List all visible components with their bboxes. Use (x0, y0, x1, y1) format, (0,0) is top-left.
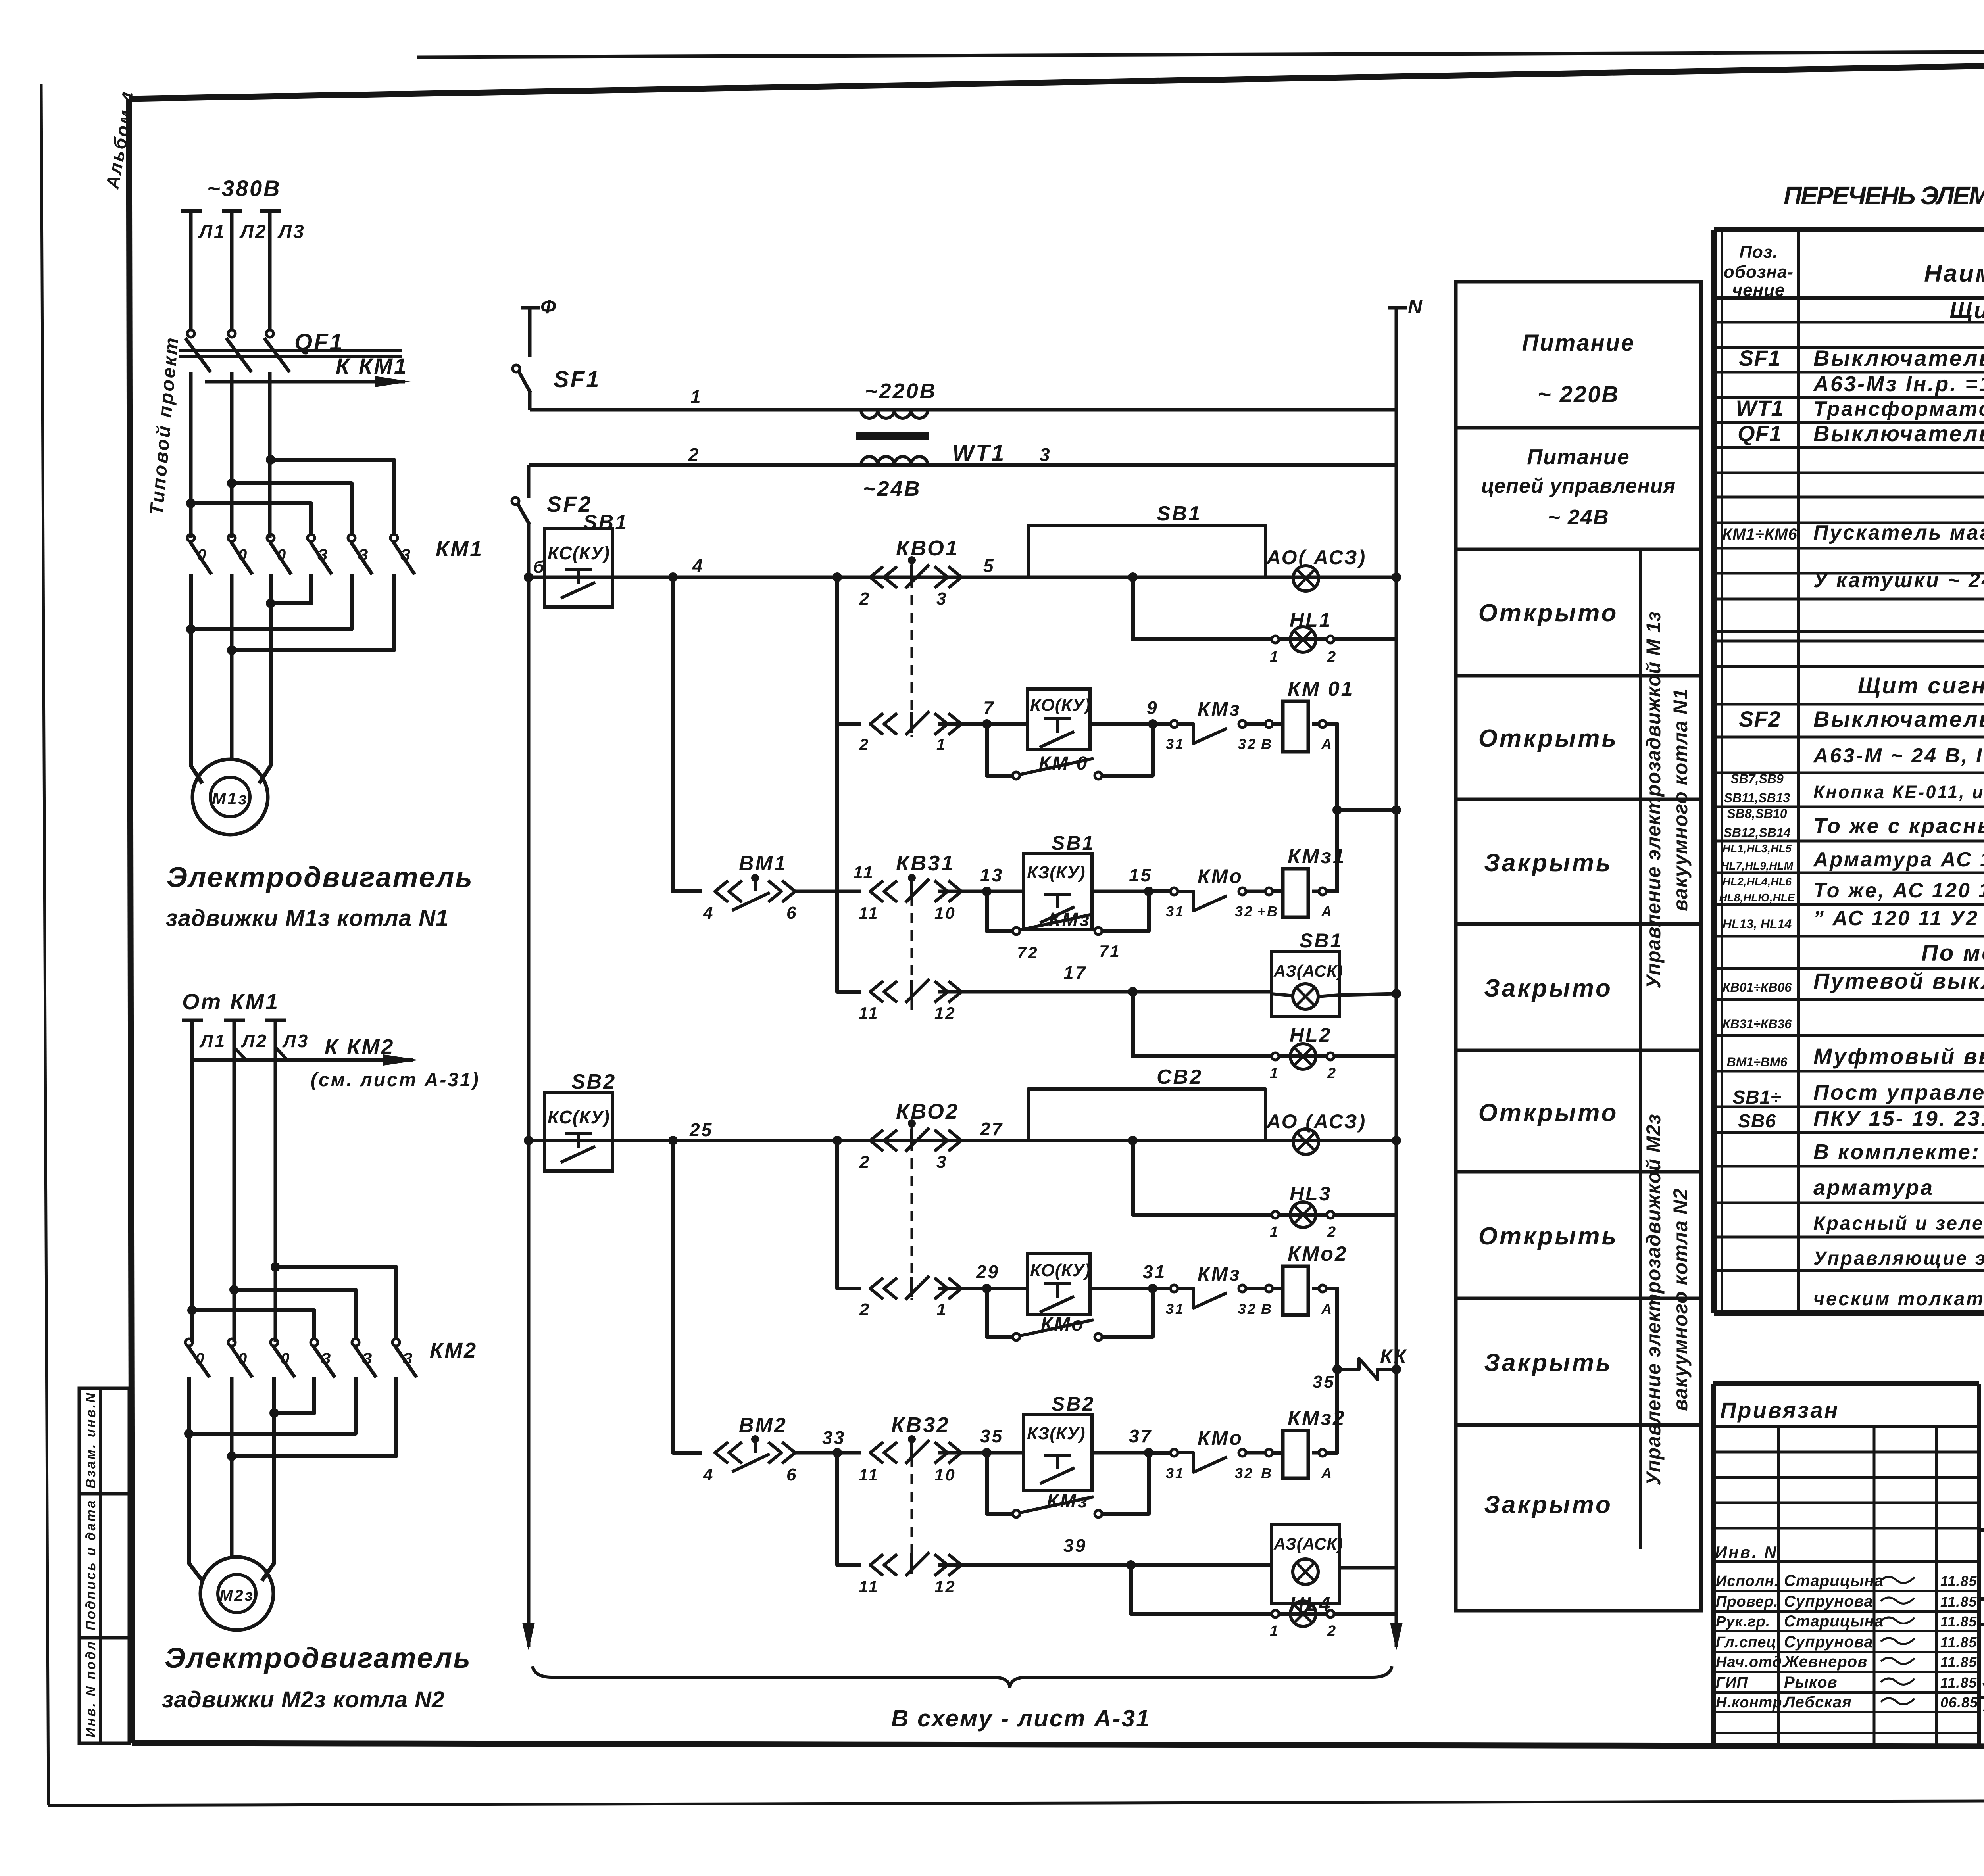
svg-text:0: 0 (277, 546, 287, 564)
svg-text:SB1: SB1 (583, 511, 628, 534)
motor M1з (192, 759, 268, 835)
sheet outer border bottom edge (48, 1800, 1984, 1805)
svg-text:КК: КК (1380, 1345, 1407, 1367)
svg-text:Супрунова: Супрунова (1784, 1593, 1873, 1610)
svg-text:29: 29 (976, 1262, 1000, 1282)
svg-text:2: 2 (688, 444, 700, 465)
title block line below ТП (1979, 1597, 1984, 1601)
svg-text:0: 0 (238, 1350, 248, 1367)
svg-text:35: 35 (980, 1426, 1004, 1446)
crossover wire Л3 to KM1 pole 6 (271, 460, 394, 534)
svg-text:2: 2 (859, 589, 871, 609)
svg-text:11: 11 (859, 1004, 879, 1022)
motor M2з (200, 1557, 273, 1630)
drawing frame bottom edge (132, 1743, 1984, 1747)
svg-text:КВО1: КВО1 (896, 536, 959, 560)
svg-text:З: З (402, 1350, 414, 1367)
title block line above Цех (1979, 1623, 1984, 1626)
svg-text:А: А (1321, 736, 1333, 752)
terminal N (1388, 306, 1407, 310)
svg-text:Кнопка КЕ-011, исп. 4 с чер: Кнопка КЕ-011, исп. 4 с черным толкател. (1813, 782, 1984, 802)
svg-text:КМо: КМо (1198, 865, 1243, 887)
svg-text:Выключатель автоматический: Выключатель автоматический (1813, 707, 1984, 732)
wire KM1 pole 6 to pole 2 line (232, 574, 394, 650)
svg-text:ВМ1÷ВМ6: ВМ1÷ВМ6 (1727, 1055, 1788, 1069)
svg-text:33: 33 (822, 1427, 846, 1448)
svg-text:1: 1 (936, 736, 947, 753)
svg-text:Взам. инв.N: Взам. инв.N (83, 1391, 98, 1488)
svg-text:З: З (317, 546, 329, 564)
svg-text:А: А (1321, 1465, 1333, 1481)
wire QF1 to KM1 phase Л1 (189, 372, 193, 538)
svg-text:А: А (1321, 1301, 1333, 1317)
svg-text:Н.контр.: Н.контр. (1716, 1694, 1787, 1711)
svg-text:3: 3 (1040, 444, 1052, 465)
svg-text:А63-Мз Iн.р. =1,6А: А63-Мз Iн.р. =1,6А (1813, 372, 1984, 396)
svg-text:SB1: SB1 (1300, 929, 1343, 952)
svg-text:3: 3 (936, 589, 948, 609)
svg-text:71: 71 (1099, 942, 1121, 960)
svg-text:~220В: ~220В (865, 379, 937, 403)
svg-text:То же с красным толкателе: То же с красным толкателем (1813, 814, 1984, 838)
pushbutton КО(КУ) group2 (1027, 1254, 1090, 1314)
svg-text:SF1: SF1 (1739, 346, 1781, 371)
svg-text:Выключатель АЕ: Выключатель АЕ (1813, 421, 1984, 446)
crossover wire Л1 to KM1 pole 4 (191, 503, 311, 534)
title block line above ТП (1979, 1528, 1984, 1532)
svg-text:В: В (1261, 1465, 1273, 1481)
tap wire К КМ2 with arrow (192, 1058, 413, 1062)
svg-text:6: 6 (786, 1465, 798, 1484)
svg-text:SF2: SF2 (1739, 707, 1781, 732)
svg-text:3: 3 (936, 1152, 948, 1172)
svg-text:КМо: КМо (1041, 1314, 1085, 1335)
svg-text:27: 27 (980, 1119, 1004, 1139)
svg-text:Инв. N подл: Инв. N подл (83, 1640, 98, 1738)
svg-text:Закрыть: Закрыть (1484, 849, 1613, 877)
svg-text:З: З (321, 1350, 333, 1367)
svg-text:НL13, НL14: НL13, НL14 (1723, 917, 1792, 931)
svg-text:11.85: 11.85 (1940, 1674, 1977, 1691)
svg-text:N: N (1408, 296, 1424, 318)
svg-text:Жевнеров: Жевнеров (1783, 1653, 1867, 1671)
node rail2 right bus (1392, 1136, 1401, 1145)
svg-text:Супрунова: Супрунова (1784, 1633, 1873, 1651)
svg-text:Щит 1Ш: Щит 1Ш (1949, 298, 1984, 323)
svg-text:КВО2: КВО2 (896, 1100, 959, 1123)
svg-text:31: 31 (1166, 1301, 1185, 1317)
rail row open-indicate group2 (529, 1139, 1396, 1142)
svg-text:0: 0 (197, 546, 208, 564)
svg-text:Электродвигатель: Электродвигатель (165, 1642, 471, 1674)
title block line above Управление (1979, 1696, 1984, 1699)
phase lead Л1 circuit 1 (181, 209, 202, 213)
svg-text:Исполн.: Исполн. (1716, 1573, 1779, 1590)
svg-text:КВ31: КВ31 (896, 851, 955, 875)
svg-text:КВ01÷КВ06: КВ01÷КВ06 (1723, 980, 1792, 995)
svg-text:SB1: SB1 (1157, 502, 1202, 525)
sheet outer border top edge (417, 50, 1984, 57)
svg-text:Управление электрозодвижками: Управление электрозодвижками (1982, 1698, 1984, 1715)
svg-text:В схему - лист А-31: В схему - лист А-31 (891, 1705, 1150, 1732)
lamp HL1 branch (1133, 577, 1396, 639)
svg-text:32: 32 (1235, 1465, 1254, 1481)
svg-text:Открыто: Открыто (1478, 1099, 1619, 1127)
svg-text:Закрыть: Закрыть (1484, 1349, 1613, 1377)
svg-text:Электродвигатель: Электродвигатель (167, 862, 473, 893)
button SB1 bypass link (1028, 526, 1265, 577)
svg-text:4: 4 (703, 903, 714, 923)
auxiliary contact КМо bypass group2 (987, 1288, 1013, 1337)
svg-text:2: 2 (1327, 1224, 1337, 1240)
svg-text:11.85: 11.85 (1940, 1613, 1977, 1630)
lamp HL3 branch (1133, 1141, 1396, 1215)
svg-text:ВМ1: ВМ1 (739, 852, 787, 875)
svg-text:11: 11 (853, 863, 875, 882)
svg-text:25: 25 (689, 1119, 713, 1140)
svg-text:Щит сигнализации ЩС1: Щит сигнализации ЩС1 (1858, 673, 1984, 699)
svg-text:72: 72 (1017, 943, 1039, 962)
svg-text:” АС 120 11 У2: ” АС 120 11 У2 (1813, 907, 1979, 930)
wire coil КМ01 to bus (1326, 724, 1396, 810)
node to row Открыть group1 (832, 572, 842, 582)
svg-text:11: 11 (859, 1465, 879, 1484)
svg-text:Нач.отд.: Нач.отд. (1716, 1654, 1786, 1671)
margin stamp boxes (79, 1388, 129, 1743)
svg-text:3000 бройлеров (кур) в час.: 3000 бройлеров (кур) в час. (1982, 1669, 1984, 1692)
svg-text:К КМ2: К КМ2 (325, 1035, 394, 1059)
wire coil КМз1 up to bus join (1326, 810, 1337, 891)
svg-text:цепей управления: цепей управления (1481, 474, 1676, 497)
svg-text:5: 5 (983, 555, 995, 576)
left bus bottom arrow (522, 1623, 535, 1650)
svg-text:12: 12 (934, 1577, 956, 1596)
button station box SB2 КС(КУ) (544, 1093, 613, 1171)
svg-text:31: 31 (1166, 1465, 1185, 1481)
svg-text:1: 1 (1270, 649, 1280, 665)
svg-text:31: 31 (1143, 1262, 1166, 1282)
phase lead Л1 circuit 2 (182, 1019, 203, 1022)
svg-text:Старицына: Старицына (1784, 1613, 1884, 1630)
svg-text:0: 0 (238, 546, 248, 564)
switch SF1 (513, 365, 520, 372)
svg-text:Открыть: Открыть (1478, 725, 1619, 752)
svg-text:06.85: 06.85 (1940, 1694, 1978, 1711)
svg-text:КМз: КМз (1198, 1263, 1241, 1285)
wire coil КМз2 to КК junction (1326, 1369, 1337, 1453)
function column inner divider (1639, 549, 1642, 1549)
svg-text:15: 15 (1129, 865, 1152, 885)
terminal Ф (521, 306, 540, 310)
svg-text:WT1: WT1 (1736, 396, 1784, 421)
lamp HL4 branch (1131, 1565, 1396, 1614)
svg-text:SF1: SF1 (554, 367, 600, 392)
svg-text:4: 4 (692, 555, 704, 576)
svg-text:вакуумного котла N2: вакуумного котла N2 (1669, 1188, 1692, 1411)
svg-text:32: 32 (1238, 1301, 1257, 1317)
phase lead Л2 circuit 1 (222, 209, 242, 213)
motor lead 1 circuit 2 (189, 1377, 202, 1581)
svg-text:SB11,SB13: SB11,SB13 (1724, 791, 1790, 805)
svg-text:1: 1 (1270, 1623, 1280, 1640)
svg-text:QF1: QF1 (1738, 421, 1782, 446)
svg-text:КС(КУ): КС(КУ) (548, 543, 610, 563)
node to lamp HL3 row (1128, 1136, 1138, 1145)
svg-text:HL3: HL3 (1290, 1183, 1332, 1205)
svg-text:КС(КУ): КС(КУ) (548, 1107, 610, 1127)
wire KM1 pole 5 to pole 1 line (191, 574, 352, 629)
svg-text:Лебская: Лебская (1783, 1694, 1852, 1711)
svg-text:Привязан: Привязан (1720, 1398, 1839, 1423)
auxiliary contact КМз bypass group1 (987, 891, 1013, 931)
svg-text:Л2: Л2 (239, 221, 267, 242)
svg-text:З: З (362, 1350, 374, 1367)
row Закрыто group2 wire (837, 1453, 861, 1565)
drawing frame left edge (129, 99, 132, 1743)
svg-text:0: 0 (281, 1350, 291, 1367)
svg-text:М1з: М1з (212, 789, 248, 808)
svg-text:Старицына: Старицына (1784, 1572, 1884, 1590)
svg-text:31: 31 (1166, 736, 1185, 752)
svg-text:НL2,НL4,НL6: НL2,НL4,НL6 (1723, 876, 1792, 888)
contactor KM1 contacts (187, 534, 194, 541)
motor lead 3 circuit 2 (262, 1377, 274, 1581)
svg-text:WT1: WT1 (952, 440, 1005, 466)
svg-text:SB2: SB2 (1052, 1393, 1095, 1415)
motor lead 2 circuit 2 (230, 1377, 234, 1557)
svg-text:Рыков: Рыков (1784, 1674, 1838, 1691)
svg-text:Управление электрозадвижкой: Управление электрозадвижкой М 1з (1642, 611, 1665, 989)
svg-text:КМ 01: КМ 01 (1288, 678, 1354, 701)
svg-text:13: 13 (980, 865, 1004, 885)
crossover wire Л2 to KM1 pole 5 (232, 483, 352, 534)
svg-text:ВМ2: ВМ2 (739, 1414, 787, 1437)
svg-text:КМ1: КМ1 (436, 537, 483, 561)
svg-text:КО(КУ): КО(КУ) (1030, 1261, 1091, 1280)
svg-text:чение: чение (1732, 280, 1785, 300)
svg-text:Провер.: Провер. (1716, 1594, 1778, 1610)
svg-text:32: 32 (1238, 736, 1257, 752)
element table grid (1714, 227, 1984, 232)
svg-text:Л3: Л3 (282, 1031, 309, 1051)
node to row Закрыть group1 (668, 572, 678, 582)
svg-text:Гл.спец.: Гл.спец. (1716, 1634, 1781, 1651)
svg-text:А63-М ~ 24 В, I расч.: А63-М ~ 24 В, I расч. = 1,6 А (1813, 744, 1984, 767)
svg-text:12: 12 (934, 1004, 956, 1022)
wire KM1 pole 4 to pole 3 line (271, 574, 311, 603)
row Закрыть group1 wire (673, 577, 702, 891)
svg-text:КМз: КМз (1047, 1491, 1089, 1512)
row Закрыто group1 wire (837, 724, 861, 992)
svg-text:В: В (1261, 1301, 1273, 1317)
svg-text:Арматура АС 120 13У2, ~ 24В: Арматура АС 120 13У2, ~ 24В (1813, 848, 1984, 871)
svg-text:задвижки М1з котла N1: задвижки М1з котла N1 (166, 905, 449, 931)
svg-text:СВ2: СВ2 (1157, 1066, 1203, 1089)
svg-text:Л3: Л3 (277, 221, 306, 242)
svg-text:SB12,SB14: SB12,SB14 (1724, 826, 1791, 840)
svg-text:Рук.гр.: Рук.гр. (1716, 1613, 1770, 1630)
pushbutton КО(КУ) group1 (1027, 689, 1090, 750)
svg-text:КМо2: КМо2 (1288, 1242, 1348, 1265)
svg-text:КМз: КМз (1198, 698, 1241, 720)
svg-text:Л2: Л2 (241, 1031, 268, 1051)
circuit breaker QF1 (187, 330, 194, 337)
svg-text:АО (АСЗ): АО (АСЗ) (1266, 1110, 1367, 1133)
rail row open-indicate group1 (529, 576, 1396, 579)
title block small grid (1713, 1425, 1979, 1428)
svg-text:Открыто: Открыто (1478, 599, 1619, 627)
lamp HL2 branch (1133, 992, 1396, 1056)
phase lead Л3 circuit 2 (265, 1019, 286, 1022)
svg-text:Управляющие элементы с цилин: Управляющие элементы с цилиндри- (1813, 1248, 1984, 1269)
svg-text:НL8,НLЮ,НLЕ: НL8,НLЮ,НLЕ (1719, 891, 1796, 904)
svg-text:КМ 0: КМ 0 (1039, 753, 1089, 774)
brace В схему лист А-31 (533, 1666, 1392, 1688)
svg-text:ПЕРЕЧЕНЬ ЭЛЕМЕНТОВ ПРИНЦИПИА: ПЕРЕЧЕНЬ ЭЛЕМЕНТОВ ПРИНЦИПИАЛЬНОЙ СХЕМЫ (1784, 180, 1984, 210)
svg-text:КЗ(КУ): КЗ(КУ) (1027, 863, 1085, 882)
coil КМ02 (1265, 1285, 1273, 1292)
wire QF1 to KM1 phase Л3 (268, 372, 272, 538)
node to row Открыть group2 (832, 1136, 842, 1145)
svg-text:2: 2 (859, 1152, 871, 1172)
svg-text:НL7,НL9,НLМ: НL7,НL9,НLМ (1721, 860, 1794, 872)
svg-text:К КМ1: К КМ1 (336, 353, 408, 378)
svg-text:11.85: 11.85 (1940, 1573, 1977, 1589)
sheet outer border left edge (41, 84, 48, 1805)
wire 1 220V line (530, 408, 1396, 412)
contactor KM2 contacts (185, 1339, 192, 1346)
svg-text:SB8,SB10: SB8,SB10 (1727, 806, 1787, 821)
svg-text:11.85: 11.85 (1940, 1654, 1977, 1670)
row Открыть group1 wire (837, 577, 861, 724)
svg-text:HL2: HL2 (1290, 1024, 1332, 1046)
crossover wire Л2 to KM2 pole 5 (234, 1290, 356, 1339)
right 24V bus (1395, 410, 1398, 1647)
svg-text:ческим толкателем - Зшт.: ческим толкателем - Зшт. (1813, 1288, 1984, 1310)
svg-text:Л1: Л1 (198, 221, 226, 242)
wire К КМ1 with arrow (205, 380, 405, 384)
title block signature rows (1713, 1590, 1979, 1592)
svg-text:Управление электрозадвижкой: Управление электрозадвижкой М2з (1642, 1114, 1665, 1485)
svg-text:6: 6 (786, 903, 798, 923)
svg-text:0: 0 (195, 1350, 206, 1367)
svg-text:2: 2 (859, 736, 870, 753)
svg-text:1: 1 (1270, 1065, 1280, 1082)
svg-text:9: 9 (1147, 697, 1159, 718)
svg-text:КМ1÷КМ6: КМ1÷КМ6 (1722, 526, 1797, 543)
function column outline (1456, 282, 1701, 1611)
coil КМ01 (1265, 720, 1273, 728)
button station box SB1 КС(КУ) (544, 529, 613, 607)
svg-text:Инв. N: Инв. N (1715, 1543, 1778, 1561)
svg-text:КМо: КМо (1198, 1427, 1243, 1449)
svg-text:10: 10 (934, 904, 956, 922)
svg-text:Л1: Л1 (199, 1031, 226, 1051)
svg-text:SB1: SB1 (1052, 832, 1095, 854)
lamp box АЗ(АСК) group2 (1271, 1524, 1339, 1603)
auxiliary contact КМ 0 bypass group1 (987, 724, 1013, 776)
svg-text:SB6: SB6 (1738, 1111, 1776, 1132)
auxiliary contact КМз bypass group2 (987, 1453, 1013, 1514)
svg-text:1: 1 (936, 1300, 948, 1319)
svg-text:Выключатель автоматический: Выключатель автоматический (1813, 346, 1984, 371)
svg-text:Красный и зеленый светофиль: Красный и зеленый светофильтр - Зшт. (1813, 1213, 1984, 1234)
svg-text:Наименование: Наименование (1924, 260, 1984, 287)
svg-text:От КМ1: От КМ1 (182, 989, 279, 1014)
svg-text:В комплекте: светосигнальная: В комплекте: светосигнальная (1813, 1140, 1984, 1164)
svg-text:QF1: QF1 (294, 329, 344, 355)
svg-text:Путевой выключатель: Путевой выключатель (1813, 968, 1984, 993)
svg-text:КМ2: КМ2 (430, 1338, 477, 1362)
svg-text:10: 10 (934, 1465, 956, 1484)
svg-text:11.85: 11.85 (1940, 1594, 1977, 1610)
svg-text:КЗ(КУ): КЗ(КУ) (1027, 1424, 1085, 1443)
svg-text:ГИП: ГИП (1716, 1674, 1748, 1691)
svg-text:2: 2 (859, 1300, 871, 1319)
svg-text:Питание: Питание (1522, 330, 1635, 356)
svg-text:НL1,НL3,НL5: НL1,НL3,НL5 (1723, 842, 1792, 854)
svg-text:2: 2 (1327, 1623, 1337, 1640)
svg-text:З: З (400, 546, 412, 564)
row Закрыть group2 wire (673, 1141, 702, 1453)
svg-text:Питание: Питание (1527, 445, 1630, 469)
svg-text:Поз.: Поз. (1739, 242, 1778, 262)
svg-text:КВ31÷КВ36: КВ31÷КВ36 (1723, 1017, 1792, 1031)
coil КМз1 (1265, 888, 1273, 895)
svg-text:По месту: По месту (1921, 940, 1984, 966)
svg-text:Закрыто: Закрыто (1484, 975, 1613, 1002)
svg-text:~ 24В: ~ 24В (1548, 505, 1609, 529)
svg-text:В: В (1261, 736, 1273, 752)
svg-text:вакуумного котла N1: вакуумного котла N1 (1669, 688, 1692, 911)
transformer WT1 (861, 410, 928, 418)
svg-text:АЗ(АСК): АЗ(АСК) (1273, 962, 1343, 980)
svg-text:З: З (358, 546, 370, 564)
svg-text:АО( АСЗ): АО( АСЗ) (1266, 546, 1367, 568)
coil КМз2 (1265, 1449, 1273, 1456)
svg-text:2: 2 (1327, 649, 1337, 665)
svg-text:А: А (1321, 903, 1333, 920)
node to lamp HL1 row (1128, 572, 1138, 582)
svg-text:31: 31 (1166, 903, 1185, 920)
motor lead 3 circuit 1 (259, 574, 271, 783)
svg-text:Подпись и дата: Подпись и дата (83, 1499, 98, 1630)
svg-text:SB2: SB2 (571, 1070, 616, 1093)
svg-text:Открыть: Открыть (1478, 1223, 1619, 1250)
title block Привязан box (1713, 1381, 1979, 1386)
wire KM2 pole 6 to pole 2 line (232, 1377, 396, 1456)
svg-text:КВ32: КВ32 (891, 1413, 950, 1437)
svg-text:4: 4 (703, 1465, 714, 1484)
svg-text:7: 7 (983, 697, 995, 718)
wire 2-3 24V line (529, 463, 1396, 467)
svg-text:35: 35 (1313, 1372, 1335, 1392)
crossover wire Л1 to KM2 pole 4 (192, 1310, 314, 1339)
svg-text:обозна-: обозна- (1724, 262, 1794, 282)
svg-text:1: 1 (690, 386, 702, 407)
svg-text:1: 1 (1270, 1224, 1280, 1240)
node rail1 right bus (1392, 572, 1401, 582)
svg-text:АЗ(АСК): АЗ(АСК) (1273, 1534, 1343, 1553)
drawing frame top edge (129, 58, 1984, 99)
svg-text:Трансформатор ОСМ-0,1 220/2: Трансформатор ОСМ-0,1 220/24В (1813, 397, 1984, 421)
motor lead 2 circuit 1 (230, 574, 234, 760)
wire QF1 to KM1 phase Л2 (230, 372, 234, 538)
node to row Закрыть group2 (668, 1136, 678, 1145)
svg-text:39: 39 (1063, 1535, 1087, 1556)
svg-text:КМз: КМз (1049, 909, 1091, 930)
svg-text:(см. лист А-31): (см. лист А-31) (311, 1070, 480, 1091)
